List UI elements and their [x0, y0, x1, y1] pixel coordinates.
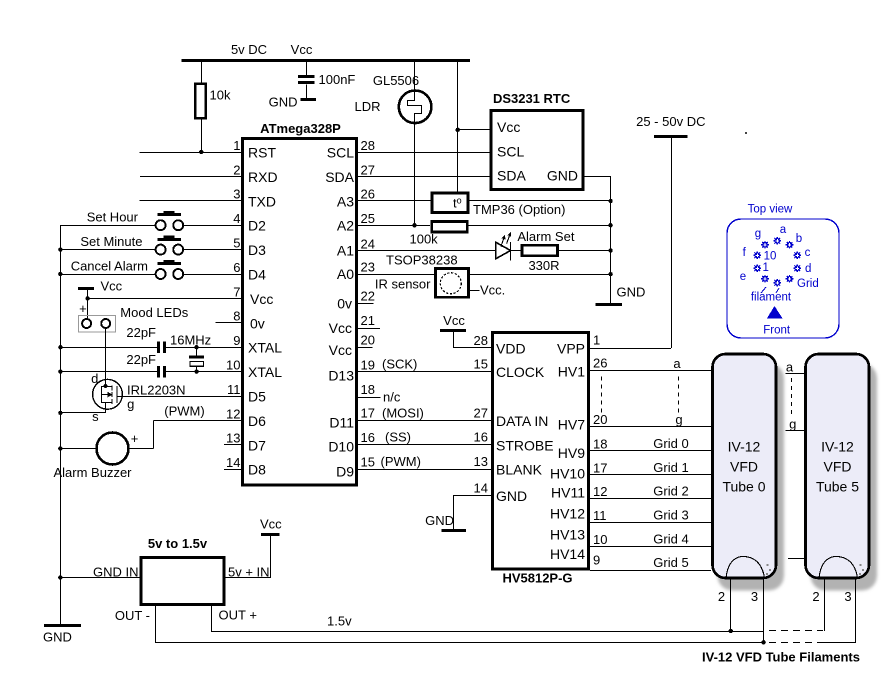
- svg-text:15: 15: [474, 357, 488, 372]
- wire ATmega n/c stubs right (22,21,20,18): [358, 304, 401, 405]
- svg-text:12: 12: [593, 484, 607, 499]
- svg-text:VFD: VFD: [730, 459, 758, 475]
- svg-text:D3: D3: [248, 242, 266, 258]
- regulator 5v to 1.5v: [93, 536, 270, 623]
- tube filament pin wires: [718, 579, 856, 642]
- svg-text:22: 22: [361, 288, 375, 303]
- wire DS3231 GND out: [585, 177, 611, 305]
- svg-text:GND: GND: [269, 95, 298, 110]
- svg-text:TMP36 (Option): TMP36 (Option): [473, 202, 565, 217]
- wire D8 pin14 stub: [224, 469, 242, 471]
- svg-text:GL5506: GL5506: [373, 73, 419, 88]
- LDR GL5506: [354, 61, 431, 226]
- svg-text:s: s: [92, 409, 99, 424]
- front triangle: [763, 306, 791, 337]
- HV5812 right pin names: [550, 340, 585, 562]
- VFD tube 5 IV-12: [806, 354, 870, 578]
- dashed continuation HV1..HV7: [602, 377, 679, 413]
- ground (left bus): [43, 626, 81, 645]
- svg-text:HV14: HV14: [550, 546, 585, 562]
- svg-text:Grid 4: Grid 4: [653, 532, 688, 547]
- svg-text:Vcc: Vcc: [329, 342, 352, 358]
- svg-text:GND: GND: [425, 513, 454, 528]
- wire Grid 2: [590, 484, 711, 499]
- svg-text:LDR: LDR: [354, 99, 380, 114]
- svg-text:6: 6: [233, 260, 240, 275]
- svg-text:4: 4: [233, 211, 240, 226]
- svg-text:8: 8: [233, 309, 240, 324]
- svg-text:15: 15: [361, 454, 375, 469]
- Mood LEDs pair: [79, 305, 189, 386]
- svg-text:Set Minute: Set Minute: [80, 234, 142, 249]
- svg-text:TXD: TXD: [248, 193, 276, 209]
- svg-text:Vcc: Vcc: [497, 119, 520, 135]
- svg-text:CLOCK: CLOCK: [496, 364, 545, 380]
- node a stub tube5: [785, 360, 804, 375]
- power Vcc (mood LEDs): [78, 278, 123, 319]
- svg-text:5: 5: [233, 236, 240, 251]
- svg-text:HV5812P-G: HV5812P-G: [502, 571, 572, 586]
- wire RST row: [140, 152, 242, 154]
- svg-text:d: d: [805, 263, 811, 275]
- wire D7 pin13 stub: [224, 444, 242, 446]
- svg-text:11: 11: [593, 508, 607, 523]
- svg-text:A0: A0: [337, 266, 354, 282]
- svg-text:2: 2: [812, 589, 819, 604]
- svg-text:g: g: [675, 412, 682, 427]
- wire TXD row: [140, 200, 242, 202]
- svg-text:100nF: 100nF: [319, 72, 356, 87]
- svg-text:17: 17: [361, 406, 375, 421]
- svg-text:Vcc: Vcc: [443, 313, 465, 328]
- DS3231 RTC U2: [491, 91, 583, 190]
- svg-text:Grid 5: Grid 5: [653, 555, 688, 570]
- svg-text:(SCK): (SCK): [382, 357, 417, 372]
- svg-text:e: e: [740, 271, 746, 283]
- svg-text:13: 13: [474, 454, 488, 469]
- svg-text:BLANK: BLANK: [496, 462, 543, 478]
- svg-text:20: 20: [361, 333, 375, 348]
- wire OUT- line: [156, 606, 856, 645]
- ground (100nF): [269, 95, 316, 110]
- junction dot LDR/A2: [412, 223, 416, 227]
- wire Vcc drop to TMP36: [457, 61, 459, 192]
- svg-text:11: 11: [227, 382, 241, 397]
- svg-text:26: 26: [593, 356, 607, 371]
- svg-text:A1: A1: [337, 243, 354, 259]
- svg-text:TSOP38238: TSOP38238: [386, 252, 458, 267]
- svg-text:HV9: HV9: [558, 445, 585, 461]
- wire VPP to 25-50v: [590, 348, 671, 350]
- top view labels: [740, 224, 819, 304]
- svg-text:25 - 50v DC: 25 - 50v DC: [636, 114, 705, 129]
- svg-text:9: 9: [593, 553, 600, 568]
- svg-text:HV10: HV10: [550, 465, 585, 481]
- LED Alarm Set: [358, 229, 575, 261]
- svg-text:XTAL: XTAL: [248, 364, 282, 380]
- svg-text:+: +: [131, 431, 139, 446]
- junction dot RST/10k: [199, 150, 203, 154]
- wire D9 (PWM) to BLANK: [358, 454, 491, 470]
- svg-text:c: c: [805, 247, 811, 259]
- power 25 - 50v DC: [636, 114, 705, 348]
- svg-text:16MHz: 16MHz: [170, 333, 211, 348]
- pushbutton Set Hour: [60, 210, 242, 231]
- svg-text:18: 18: [593, 436, 607, 451]
- svg-text:n/c: n/c: [383, 390, 401, 405]
- wire Grid 4: [590, 532, 711, 547]
- svg-text:SCL: SCL: [497, 144, 524, 160]
- svg-text:Cancel Alarm: Cancel Alarm: [71, 258, 148, 273]
- svg-text:27: 27: [474, 405, 488, 420]
- wire D11 (MOSI) to DATA IN: [358, 405, 491, 420]
- svg-text:20: 20: [593, 412, 607, 427]
- HV5812 right pin numbers: [593, 333, 607, 568]
- ATmega left pin names: [248, 145, 282, 478]
- svg-text:VPP: VPP: [557, 340, 585, 356]
- svg-text:RST: RST: [248, 145, 276, 161]
- svg-text:1: 1: [762, 262, 768, 274]
- svg-text:Grid 0: Grid 0: [653, 436, 688, 451]
- svg-text:Vcc: Vcc: [250, 291, 273, 307]
- svg-text:OUT +: OUT +: [219, 608, 257, 623]
- svg-text:STROBE: STROBE: [496, 437, 554, 453]
- HV5812 left pin names: [496, 340, 554, 504]
- transistor Q1 IRL2203N MOSFET: [60, 371, 242, 424]
- filament arc tube 5: [819, 557, 864, 579]
- svg-text:b: b: [796, 233, 802, 245]
- svg-text:18: 18: [361, 382, 375, 397]
- svg-text:3: 3: [751, 589, 758, 604]
- svg-text:GND: GND: [43, 630, 72, 645]
- svg-text:HV7: HV7: [558, 417, 585, 433]
- VFD tube 0 IV-12: [713, 354, 777, 578]
- svg-text:A3: A3: [337, 193, 354, 209]
- svg-text:D9: D9: [336, 464, 354, 480]
- op-amp U1 ATmega328P body: [243, 121, 357, 485]
- svg-text:7: 7: [233, 284, 240, 299]
- svg-text:Grid 1: Grid 1: [653, 460, 688, 475]
- svg-text:Mood LEDs: Mood LEDs: [120, 305, 188, 320]
- stray dot: [745, 132, 747, 134]
- svg-text:3: 3: [844, 589, 851, 604]
- wire Vcc pin7 row: [88, 298, 242, 300]
- resistor 100k: [358, 222, 611, 247]
- resistor 330R: [511, 245, 611, 273]
- svg-text:28: 28: [361, 138, 375, 153]
- svg-text:Vcc: Vcc: [101, 278, 123, 293]
- svg-text:(MOSI): (MOSI): [382, 405, 424, 420]
- svg-text:1: 1: [593, 333, 600, 348]
- wire Grid 1: [590, 460, 711, 475]
- svg-text:D2: D2: [248, 218, 266, 234]
- svg-text:IV-12: IV-12: [821, 439, 854, 455]
- svg-text:VFD: VFD: [824, 459, 852, 475]
- svg-text:A2: A2: [337, 218, 354, 234]
- wire 0v pin8 stub: [216, 322, 242, 324]
- svg-text:5v DC: 5v DC: [231, 42, 267, 57]
- svg-text:GND: GND: [547, 168, 578, 184]
- svg-text:Alarm Set: Alarm Set: [517, 229, 574, 244]
- svg-text:IR sensor: IR sensor: [375, 276, 431, 291]
- svg-text:HV1: HV1: [558, 364, 585, 380]
- svg-text:14: 14: [474, 481, 488, 496]
- svg-text:GND: GND: [496, 488, 527, 504]
- svg-text:27: 27: [361, 162, 375, 177]
- svg-text:Alarm Buzzer: Alarm Buzzer: [53, 465, 132, 480]
- svg-text:28: 28: [474, 333, 488, 348]
- node 5v DC power rail: [182, 42, 471, 61]
- svg-text:330R: 330R: [528, 258, 559, 273]
- ground (HV5812 GND): [425, 496, 491, 531]
- svg-text:Vcc: Vcc: [329, 320, 352, 336]
- wire left ground bus: [60, 225, 62, 625]
- svg-text:0v: 0v: [337, 295, 352, 311]
- wire Grid 0: [590, 436, 711, 451]
- svg-text:IV-12 VFD Tube Filaments: IV-12 VFD Tube Filaments: [702, 650, 860, 665]
- svg-text:10: 10: [764, 251, 777, 263]
- svg-text:22pF: 22pF: [126, 325, 156, 340]
- svg-text:D6: D6: [248, 413, 266, 429]
- svg-text:GND: GND: [617, 285, 646, 300]
- wire RXD row: [140, 176, 242, 178]
- svg-text:SCL: SCL: [327, 145, 354, 161]
- svg-text:3: 3: [233, 187, 240, 202]
- svg-text:Vcc.: Vcc.: [480, 282, 505, 297]
- svg-text:D7: D7: [248, 437, 266, 453]
- svg-text:Vcc: Vcc: [291, 42, 313, 57]
- svg-text:22pF: 22pF: [126, 352, 156, 367]
- svg-text:16: 16: [474, 430, 488, 445]
- svg-text:VDD: VDD: [496, 340, 526, 356]
- wire DS3231 Vcc: [458, 129, 490, 131]
- svg-text:Tube 0: Tube 0: [722, 479, 765, 495]
- svg-text:14: 14: [226, 455, 240, 470]
- svg-text:100k: 100k: [409, 231, 438, 246]
- Top view diagram (blue): [727, 204, 839, 339]
- svg-text:OUT -: OUT -: [115, 608, 150, 623]
- pushbutton Set Minute: [60, 234, 242, 255]
- wire SCL row: [358, 152, 490, 154]
- svg-text:(PWM): (PWM): [381, 454, 421, 469]
- svg-text:Vcc: Vcc: [260, 517, 282, 532]
- svg-text:Set Hour: Set Hour: [87, 210, 139, 225]
- svg-text:24: 24: [361, 236, 375, 251]
- svg-text:HV12: HV12: [550, 505, 585, 521]
- svg-text:ATmega328P: ATmega328P: [260, 121, 341, 136]
- svg-text:5v to 1.5v: 5v to 1.5v: [148, 536, 208, 551]
- svg-text:17: 17: [593, 460, 607, 475]
- svg-text:D11: D11: [329, 414, 354, 430]
- wire HV7 to tube segment g: [590, 412, 711, 427]
- power Vcc (regulator): [260, 517, 282, 535]
- svg-text:a: a: [786, 360, 794, 375]
- svg-text:Top view: Top view: [748, 204, 793, 216]
- svg-text:+: +: [79, 301, 87, 316]
- svg-text:(PWM): (PWM): [164, 404, 204, 419]
- svg-text:19: 19: [361, 357, 375, 372]
- svg-text:(SS): (SS): [385, 430, 411, 445]
- driver U3 HV5812P-G body: [493, 333, 589, 586]
- pushbutton Cancel Alarm: [60, 258, 242, 279]
- svg-text:Front: Front: [763, 325, 791, 337]
- svg-text:0v: 0v: [250, 315, 265, 331]
- svg-text:DS3231 RTC: DS3231 RTC: [493, 91, 571, 106]
- svg-text:23: 23: [361, 259, 375, 274]
- ATmega left pin numbers: [226, 138, 240, 470]
- svg-text:DATA IN: DATA IN: [496, 413, 548, 429]
- svg-text:1.5v: 1.5v: [327, 614, 352, 629]
- svg-text:filament: filament: [751, 292, 792, 304]
- IR sensor TSOP38238: [358, 252, 611, 297]
- wire OUT+ 1.5v line: [212, 606, 824, 633]
- capacitor 100nF: [298, 61, 355, 99]
- svg-text:21: 21: [361, 313, 375, 328]
- wire D10 (SS) to STROBE: [358, 430, 491, 445]
- wire Grid 3: [590, 508, 711, 523]
- svg-text:g: g: [127, 397, 134, 412]
- HV5812 left pin numbers: [474, 333, 488, 496]
- svg-text:HV11: HV11: [551, 485, 585, 501]
- svg-text:D13: D13: [328, 367, 354, 383]
- svg-text:XTAL: XTAL: [248, 340, 282, 356]
- svg-text:a: a: [673, 356, 681, 371]
- svg-text:g: g: [755, 228, 761, 240]
- dashed a..g tube5: [791, 378, 793, 415]
- ATmega right pin numbers: [361, 138, 375, 470]
- svg-text:12: 12: [226, 406, 240, 421]
- svg-text:10: 10: [226, 358, 240, 373]
- svg-text:D5: D5: [248, 389, 266, 405]
- wire SDA row: [358, 176, 490, 178]
- junction dot pin7/Vcc: [85, 296, 89, 300]
- wire Grid 5: [590, 555, 711, 571]
- svg-text:26: 26: [361, 187, 375, 202]
- svg-text:D10: D10: [328, 438, 354, 454]
- wire GND IN: [60, 577, 139, 579]
- crystal 16MHz: [170, 333, 211, 374]
- sensor TMP36 t-deg box: [358, 193, 611, 217]
- junction dots on left bus: [58, 247, 62, 579]
- svg-text:IV-12: IV-12: [728, 439, 761, 455]
- wire HV1 to tube anode a: [590, 356, 711, 371]
- svg-text:10: 10: [593, 532, 607, 547]
- svg-text:10k: 10k: [210, 88, 231, 103]
- svg-text:Grid 2: Grid 2: [653, 484, 688, 499]
- svg-text:g: g: [789, 416, 796, 431]
- resistor 10k: [195, 61, 231, 152]
- svg-text:16: 16: [361, 430, 375, 445]
- svg-text:D8: D8: [248, 462, 266, 478]
- svg-text:25: 25: [361, 211, 375, 226]
- grid stub tube5: [788, 558, 804, 560]
- svg-text:2: 2: [718, 589, 725, 604]
- Alarm Buzzer: [53, 431, 153, 480]
- svg-text:RXD: RXD: [248, 169, 278, 185]
- capacitor 22pF (XTAL2): [60, 352, 242, 378]
- wire D6 pin12 (PWM): [154, 404, 243, 449]
- svg-text:SDA: SDA: [497, 168, 526, 184]
- svg-text:HV13: HV13: [550, 526, 585, 542]
- svg-text:2: 2: [233, 162, 240, 177]
- svg-text:a: a: [780, 224, 787, 236]
- ground (right GND net): [596, 285, 646, 305]
- wire 5v+IN to Vcc: [225, 535, 270, 578]
- svg-text:Tube 5: Tube 5: [816, 479, 859, 495]
- node g stub tube5: [785, 416, 804, 431]
- power Vcc (HV5812 VDD): [440, 313, 491, 348]
- svg-text:IRL2203N: IRL2203N: [127, 383, 186, 398]
- svg-text:1: 1: [233, 138, 240, 153]
- svg-text:13: 13: [226, 431, 240, 446]
- junction dots right GND net: [608, 199, 612, 276]
- junction dot Vcc/TMP36: [456, 128, 460, 132]
- svg-text:D4: D4: [248, 267, 266, 283]
- svg-text:SDA: SDA: [325, 169, 354, 185]
- capacitor 22pF (XTAL1): [60, 325, 242, 353]
- wire D13 (SCK) to CLOCK: [358, 357, 491, 372]
- ATmega right pin names: [325, 145, 354, 480]
- svg-text:Grid 3: Grid 3: [653, 508, 688, 523]
- top view pins: [753, 237, 801, 287]
- svg-text:Grid: Grid: [797, 278, 819, 290]
- filament arc tube 0: [726, 557, 771, 579]
- svg-text:9: 9: [233, 333, 240, 348]
